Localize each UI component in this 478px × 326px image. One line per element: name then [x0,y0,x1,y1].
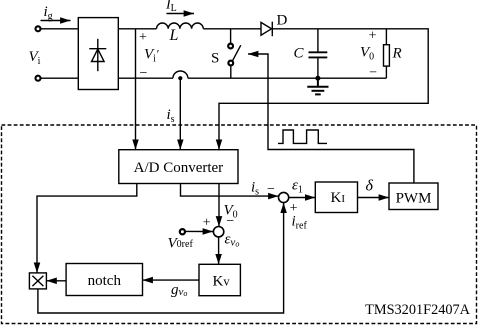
svg-text:R: R [392,45,402,61]
svg-text:S: S [211,51,219,67]
svg-text:Vi′: Vi′ [144,47,159,65]
wire: switch stub from top rail [230,29,232,44]
wire: bottom rail left of sense hump [118,77,173,79]
A/D converter box [119,150,238,184]
switch S upper contact [228,44,233,49]
ground [307,78,328,94]
svg-text:A/D Converter: A/D Converter [134,160,224,176]
wire: V0ref to summing junction [186,230,214,232]
wire: Ki to PWM [358,197,390,199]
wire: is sense down to A/D [179,78,181,150]
arrow: ig direction [41,20,71,22]
wire: top rail bridge to inductor [118,28,156,30]
svg-text:+: + [203,215,211,230]
bridge rectifier [78,18,118,90]
wire: A/D is output to summing junction [181,184,279,197]
arrow: IL direction [167,13,195,15]
svg-text:L: L [169,27,179,44]
wire: A/D left output to multiplier [37,184,137,273]
svg-text:V0: V0 [360,45,374,63]
svg-text:D: D [277,13,288,29]
wire: Vi' sense line down to A/D [135,29,137,150]
inductor L [157,23,204,29]
wire: summing to Kv [218,237,220,264]
svg-text:−: − [369,65,377,80]
svg-text:notch: notch [88,273,122,289]
svg-text:ε1: ε1 [292,178,303,196]
terminal: input bottom [36,76,41,81]
wire: bottom rail right of sense hump [188,77,387,79]
wire: switch to bottom rail [230,66,232,79]
switch S blade [232,45,240,61]
notch box [66,264,142,296]
wire: multiplier output to iref [38,203,284,313]
svg-text:V0ref: V0ref [168,236,194,252]
wire: input top lead [41,28,79,30]
svg-text:gvo: gvo [171,282,187,298]
svg-text:+: + [369,29,377,44]
PWM box [389,183,438,210]
wire: input bottom lead [41,77,79,79]
svg-text:+: + [139,30,147,45]
gate pulse waveform [278,130,327,143]
terminal V0ref [180,229,185,234]
svg-text:Kv: Kv [213,274,231,290]
svg-text:ig: ig [44,4,53,22]
svg-text:is: is [167,107,175,125]
wire: notch to multiplier [46,280,66,282]
switch S lower contact [228,61,233,66]
svg-text:δ: δ [366,178,374,195]
svg-text:IL: IL [165,0,177,14]
svg-text:iref: iref [292,214,308,232]
wire: summing to Ki [289,197,316,199]
svg-text:C: C [294,46,305,62]
junction dot: capacitor/ground [315,76,320,81]
svg-text:−: − [267,182,275,197]
svg-text:PWM: PWM [396,190,432,206]
svg-text:TMS3201F2407A: TMS3201F2407A [365,302,471,318]
dashed DSP box [2,125,477,324]
Kv box [199,264,240,295]
wire: A/D V0 output down [218,184,220,227]
summing junction voltage [213,227,223,237]
summing junction current [279,192,289,202]
wire: top rail diode to right corner and V0 sense loop into A/D [219,29,428,150]
svg-text:KI: KI [331,190,346,206]
multiplier [29,273,46,289]
resistor R [384,29,390,78]
wire: gate drive from PWM to switch [248,54,414,183]
bridge diode [89,39,106,71]
junction dot: current sense tap [178,76,182,80]
wire: top rail inductor to diode [203,28,261,30]
capacitor C [309,29,328,78]
Ki box [315,182,357,213]
current sense hump [173,71,188,78]
svg-text:Vi: Vi [29,49,41,67]
svg-text:εvo: εvo [225,232,240,249]
diode D [261,22,272,37]
wire: Kv to notch [143,279,200,281]
svg-text:−: − [226,214,234,229]
terminal: input top [36,26,41,31]
svg-text:is: is [251,179,259,197]
